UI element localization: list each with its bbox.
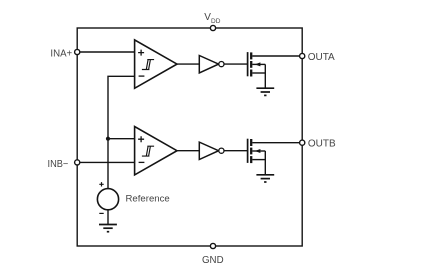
inverter U3 xyxy=(199,56,218,73)
U4 output bubble xyxy=(219,148,224,153)
comparator U2 xyxy=(135,127,177,175)
wire: U1 output to inverter U3 xyxy=(177,63,199,65)
wire: INA+ to comparator U1 noninverting input xyxy=(80,51,135,53)
pin INA+ terminal xyxy=(75,49,80,54)
svg-text:DD: DD xyxy=(211,18,221,25)
U3 output bubble xyxy=(219,62,224,67)
pin GND terminal xyxy=(210,243,215,248)
wire: reference source to ground xyxy=(107,210,109,225)
inverter U4 xyxy=(199,142,218,159)
pin OUTB terminal xyxy=(300,140,305,145)
U1 minus sign xyxy=(139,75,145,77)
wire: inverter U4 to Q2 gate xyxy=(224,150,248,152)
reference plus sign xyxy=(99,182,103,186)
pin VDD terminal xyxy=(210,25,215,30)
wire: INB- to comparator U2 inverting input xyxy=(80,161,135,163)
U1 hysteresis symbol xyxy=(142,60,154,70)
wire: Q2 drain to OUTB xyxy=(252,142,299,144)
svg-text:INB−: INB− xyxy=(48,159,69,170)
node: junction dot on reference net xyxy=(106,137,110,141)
svg-text:Reference: Reference xyxy=(126,193,170,204)
U2 hysteresis symbol xyxy=(142,146,154,156)
wire: inverter U3 to Q1 gate xyxy=(224,63,248,65)
U2 plus sign xyxy=(138,136,144,142)
wire: U2 output to inverter U4 xyxy=(177,150,199,152)
pin OUTA terminal xyxy=(300,53,305,58)
svg-text:OUTA: OUTA xyxy=(308,52,335,63)
U2 minus sign xyxy=(139,161,145,163)
comparator U1 xyxy=(135,40,177,88)
svg-text:GND: GND xyxy=(202,255,224,266)
wire: reference net to comparator U2 noninverting input xyxy=(108,138,135,140)
reference minus sign xyxy=(99,212,103,214)
svg-text:INA+: INA+ xyxy=(50,48,72,59)
svg-text:OUTB: OUTB xyxy=(308,139,336,150)
ground for Q1 source xyxy=(256,88,274,95)
transistor Q2 (NMOS) xyxy=(248,139,266,175)
voltage source: Reference xyxy=(97,189,118,210)
pin INB- terminal xyxy=(75,160,80,165)
IC boundary rectangle xyxy=(77,28,302,246)
transistor Q1 (NMOS) xyxy=(248,52,266,88)
ground for reference xyxy=(99,225,117,232)
U1 plus sign xyxy=(138,50,144,56)
wire: Q1 drain to OUTA xyxy=(252,55,299,57)
wire: reference net to U1 inverting input and down to reference source xyxy=(108,76,135,188)
ground for Q2 source xyxy=(256,175,274,182)
